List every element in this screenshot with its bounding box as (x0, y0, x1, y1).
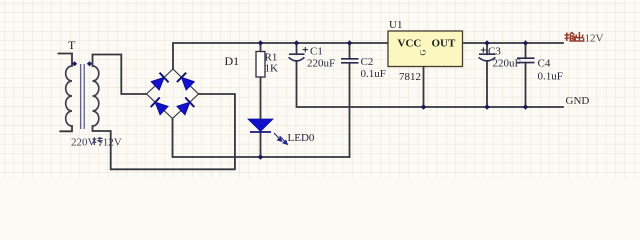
wire C3 top (486, 43, 488, 54)
svg-text:220uF: 220uF (493, 58, 521, 70)
junction C3 top on OUT rail (484, 40, 490, 46)
wire R1 to LED (260, 77, 262, 119)
svg-text:OUT: OUT (432, 37, 457, 49)
U1 labels (389, 19, 456, 83)
wire C3 bottom (486, 61, 488, 107)
transformer secondary polarity dot (87, 61, 92, 66)
transformer core (81, 64, 85, 129)
diode D bottom-right (anode bottom, cathode right) (176, 97, 194, 115)
junction R1 top on +V rail (258, 40, 264, 46)
diode D top-left (anode left, cathode top) (151, 73, 169, 91)
wire primary bottom stub (60, 126, 72, 131)
regulator U1 box (388, 31, 463, 67)
svg-text:7812: 7812 (399, 71, 421, 83)
wire C4 top (525, 43, 527, 58)
svg-text:C1: C1 (310, 46, 323, 58)
svg-text:G: G (417, 49, 427, 55)
junction C3 bottom on GND rail (484, 104, 490, 110)
capacitor C3 (479, 54, 496, 61)
svg-text:220uF: 220uF (307, 58, 335, 70)
svg-text:C3: C3 (488, 46, 501, 58)
svg-text:12V: 12V (103, 136, 122, 148)
svg-text:0.1uF: 0.1uF (361, 68, 386, 80)
transformer T windings (66, 66, 99, 126)
diode D bottom-left (anode bottom, cathode left) (151, 97, 169, 115)
wire LED to rail (260, 132, 262, 157)
wire U1 OUT rail (463, 42, 564, 44)
wire C1 top (296, 43, 298, 54)
junction U1 GND pin on GND rail (421, 104, 427, 110)
svg-text:0.1uF: 0.1uF (538, 71, 563, 83)
svg-text:D1: D1 (225, 54, 240, 68)
wire primary top stub (59, 54, 73, 67)
junction C1 top on +V rail (294, 40, 300, 46)
C3 polarity plus sign (481, 47, 486, 52)
junction C2 top on +V rail (347, 40, 353, 46)
svg-text:VCC: VCC (398, 37, 422, 49)
wire secondary top to bridge left (93, 55, 147, 95)
resistor R1 body (256, 52, 265, 78)
junction C4 top on OUT rail (523, 40, 529, 46)
wire top rail from bridge top to U1 VCC (173, 43, 388, 69)
char 输 (565, 33, 569, 42)
svg-text:220V: 220V (71, 136, 96, 148)
LED LED0 (248, 119, 315, 144)
wire C2 top (349, 43, 351, 59)
svg-text:12V: 12V (585, 32, 604, 44)
svg-text:T: T (68, 38, 76, 52)
wire secondary bottom to bridge right (93, 94, 235, 169)
svg-text:U1: U1 (389, 19, 402, 31)
C1 polarity plus sign (303, 47, 308, 52)
svg-text:C4: C4 (538, 57, 551, 69)
resistor R1 labels (265, 52, 279, 75)
svg-text:GND: GND (566, 95, 590, 107)
junction LED0 cathode on negative rail (258, 154, 264, 160)
wire GND mid rail from C1 bottom (297, 61, 564, 107)
junction C4 bottom on GND rail (523, 104, 529, 110)
net label 220V转12V (71, 136, 122, 148)
svg-text:C2: C2 (361, 56, 374, 68)
transformer primary polarity dot (72, 61, 77, 66)
capacitor C4 (517, 58, 535, 62)
svg-text:1K: 1K (265, 63, 279, 75)
wire R1 top (260, 43, 262, 52)
capacitor C1 (289, 54, 305, 61)
wire C2 bottom column (349, 63, 351, 157)
wire bottom negative rail (173, 119, 350, 158)
char 转 (93, 137, 97, 145)
svg-text:LED0: LED0 (288, 132, 315, 144)
wire U1 GND pin drop (423, 67, 425, 108)
bridge rectifier diamond outline (147, 69, 199, 119)
diode D top-right (anode right, cathode top) (177, 73, 195, 91)
capacitor C2 (341, 59, 359, 63)
net label 输出12V (565, 32, 584, 41)
char 出 (575, 32, 583, 41)
wire C4 bottom (525, 63, 527, 107)
